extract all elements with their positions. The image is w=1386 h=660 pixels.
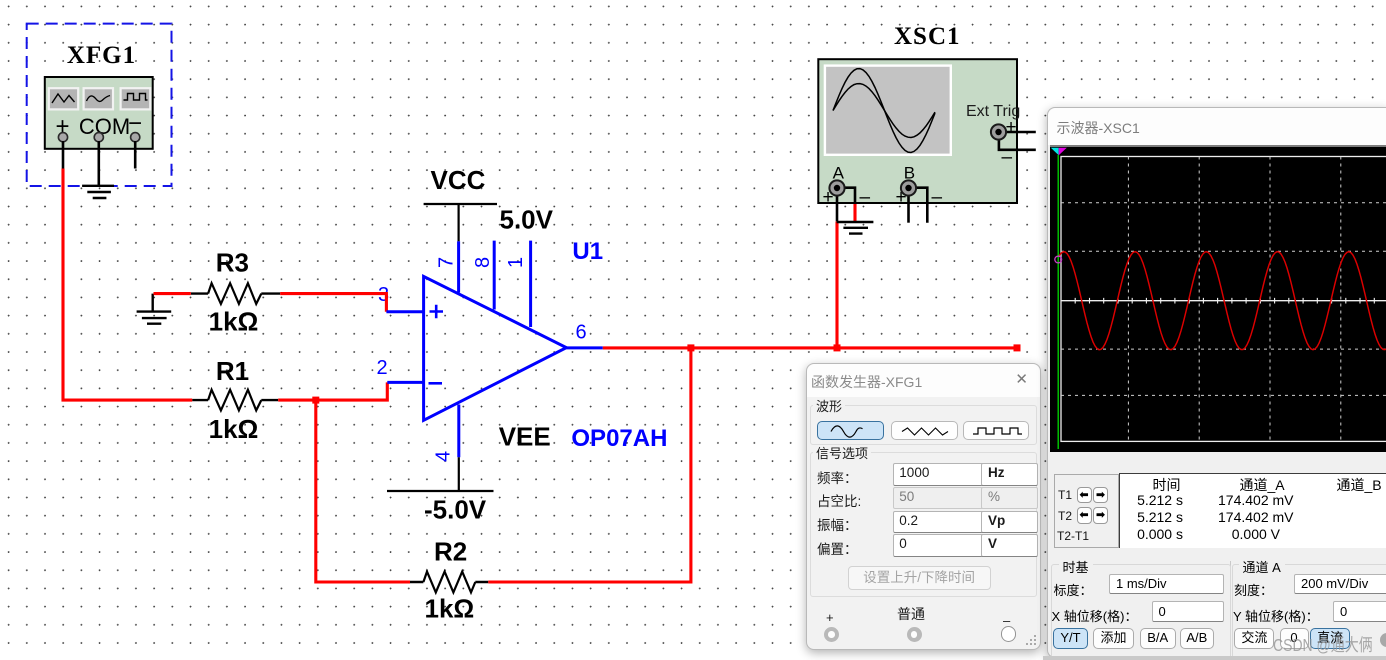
svg-text:XSC1: XSC1 (894, 23, 961, 50)
svg-text:8: 8 (472, 257, 494, 268)
svg-text:VCC: VCC (431, 165, 486, 195)
svg-text:1kΩ: 1kΩ (209, 307, 259, 337)
svg-text:5.0V: 5.0V (500, 205, 554, 235)
svg-text:XFG1: XFG1 (67, 42, 136, 69)
svg-text:OP07AH: OP07AH (571, 425, 667, 452)
svg-text:U1: U1 (572, 238, 603, 265)
svg-text:6: 6 (576, 322, 587, 344)
svg-text:R1: R1 (216, 356, 249, 386)
svg-text:1: 1 (505, 257, 527, 268)
svg-text:1kΩ: 1kΩ (425, 594, 475, 624)
svg-text:2: 2 (377, 357, 388, 379)
svg-text:7: 7 (436, 257, 458, 268)
svg-text:VEE: VEE (499, 422, 551, 452)
svg-text:+: + (1006, 117, 1017, 138)
svg-text:R3: R3 (216, 248, 249, 278)
svg-text:–: – (932, 187, 943, 208)
svg-text:-5.0V: -5.0V (424, 495, 487, 525)
svg-text:–: – (860, 187, 871, 208)
svg-text:1kΩ: 1kΩ (209, 414, 259, 444)
svg-text:4: 4 (433, 451, 455, 462)
svg-text:COM: COM (79, 114, 130, 139)
svg-text:R2: R2 (434, 537, 467, 567)
